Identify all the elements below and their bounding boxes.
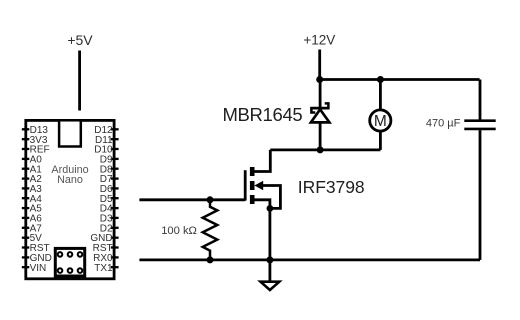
wire diode vertical branch xyxy=(319,80,322,150)
wire +12V top rail xyxy=(320,78,480,81)
wire gate from arduino side xyxy=(139,198,245,201)
wire capacitor top corner from rail xyxy=(479,80,482,120)
capacitor C1 : top plate xyxy=(464,119,495,122)
Arduino Nano name label xyxy=(51,164,88,186)
mosfet Q1 : channel pad body xyxy=(250,181,255,190)
svg-text:470 µF: 470 µF xyxy=(426,118,461,130)
node junction motor top xyxy=(377,76,384,83)
label 470 uF xyxy=(426,118,461,130)
svg-text:MBR1645: MBR1645 xyxy=(223,104,303,125)
wire +5V lead down to Arduino xyxy=(78,51,81,111)
diode D1 cathode left hook xyxy=(311,108,315,112)
wire +12V lead down xyxy=(318,50,321,80)
node junction diode bottom xyxy=(317,146,324,153)
svg-text:+5V: +5V xyxy=(67,32,93,48)
mosfet Q1 : body arrow xyxy=(254,181,263,191)
diode D1 anode triangle xyxy=(311,109,330,122)
wire ground bottom rail xyxy=(139,258,480,261)
svg-text:IRF3798: IRF3798 xyxy=(298,177,365,197)
label 100 kOhm xyxy=(161,225,197,237)
motor M1 : letter M xyxy=(374,113,387,130)
svg-text:+12V: +12V xyxy=(303,33,335,48)
mosfet Q1 : channel pad drain xyxy=(250,167,255,176)
mosfet Q1 : gate bar xyxy=(244,170,247,200)
wire mid rail (mosfet drain to diode and motor) xyxy=(270,148,380,151)
Arduino Nano pin labels left column xyxy=(30,125,52,274)
mosfet Q1 : body wire loop xyxy=(263,186,281,209)
node junction +12V rail / diode xyxy=(316,76,323,83)
mosfet Q1 : source stub wire xyxy=(254,200,270,209)
Arduino Nano ICSP pads xyxy=(57,251,84,274)
svg-text:Nano: Nano xyxy=(57,174,83,186)
svg-text:TX1: TX1 xyxy=(94,263,113,274)
Arduino Nano ICSP header box xyxy=(55,248,84,276)
Arduino Nano pin stubs right xyxy=(111,129,119,267)
Arduino Nano USB notch xyxy=(59,120,81,146)
node junction resistor top xyxy=(207,196,214,203)
Arduino Nano pin labels right column xyxy=(90,125,113,274)
node junction mosfet source/body xyxy=(267,205,274,212)
mosfet Q1 : channel pad source xyxy=(250,195,255,204)
ground symbol xyxy=(261,282,280,290)
label MBR1645 xyxy=(223,104,303,125)
wire source down to ground rail xyxy=(268,208,271,282)
diode D1 cathode right hook xyxy=(325,103,329,108)
motor M1 : body circle xyxy=(370,110,391,131)
resistor R1 100k : zigzag xyxy=(203,200,218,260)
wire capacitor bottom lead down to ground rail xyxy=(479,130,482,260)
capacitor C1 : bottom plate xyxy=(464,128,495,131)
mosfet Q1 IRF3798 : drain riser wire xyxy=(254,150,270,172)
label IRF3798 xyxy=(298,177,365,197)
svg-text:M: M xyxy=(374,113,387,130)
Arduino Nano module U1 : body outline xyxy=(26,120,114,278)
svg-text:VIN: VIN xyxy=(30,263,47,274)
Arduino Nano pin stubs left xyxy=(22,129,30,267)
power label +12V xyxy=(303,33,335,48)
node junction resistor bottom xyxy=(207,256,214,263)
power label +5V xyxy=(67,32,93,48)
diode D1 MBR1645 schottky : cathode bar xyxy=(310,103,329,122)
svg-text:100 kΩ: 100 kΩ xyxy=(161,225,197,237)
node junction source at ground rail xyxy=(266,256,273,263)
motor M1 : bottom lead wire xyxy=(379,132,382,150)
motor M1 : top lead wire xyxy=(379,80,382,110)
